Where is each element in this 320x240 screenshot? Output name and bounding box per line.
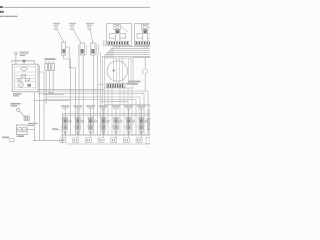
fuse wires: [46, 71, 53, 101]
detail box A drops: [115, 45, 117, 48]
pump inner wires: [114, 58, 132, 84]
callout 2 label: [69, 23, 76, 26]
gauge circle 1: [18, 127, 23, 132]
pump circle: [107, 61, 127, 81]
callout 1 leader: [57, 29, 64, 42]
callout 2 circle: [70, 27, 73, 30]
detail box B: [134, 24, 157, 46]
detail box B lamp: [141, 24, 148, 29]
valve under boxes: [60, 138, 150, 144]
valve bottom stubs: [65, 135, 150, 144]
pump side stub: [98, 84, 105, 86]
title text: [0, 11, 2, 13]
under box ticks: [61, 139, 141, 141]
valve unit 1: [62, 109, 71, 135]
relay contact K2: [18, 78, 21, 81]
right valve circle: [142, 69, 147, 74]
fuse F2: [48, 63, 50, 70]
left rail label: [52, 128, 58, 129]
detail box A cross: [109, 34, 125, 39]
gauge wire: [27, 129, 34, 131]
solenoid S3 wires: [93, 55, 95, 135]
solenoid S2 wires: [78, 55, 80, 135]
detail box B terminal strip: [135, 41, 150, 45]
solenoid S3: [91, 43, 95, 55]
detail box A terminal strip: [108, 41, 129, 45]
detail box B drops: [143, 45, 145, 48]
callout 2 leader: [73, 29, 81, 42]
valve labels: [61, 105, 150, 107]
left sensor label: [11, 103, 21, 107]
valve unit 7: [138, 109, 147, 135]
gauge caption: [17, 135, 24, 137]
left sensor leader: [19, 111, 24, 116]
callout 3 leader: [90, 30, 93, 43]
gauge box: [17, 125, 28, 135]
left sensor circle: [17, 108, 20, 111]
relay internal rails: [15, 72, 36, 87]
relay label stem: [15, 55, 17, 65]
valve unit 8 partial: [148, 109, 151, 135]
detail box B lamp wire: [148, 27, 150, 28]
callout 3 circle: [88, 27, 91, 30]
detail box A: [106, 24, 131, 46]
relay contact K1: [21, 74, 25, 77]
subtitle text: [0, 16, 17, 17]
valve spool marks: [64, 119, 143, 129]
right caption: [128, 81, 141, 83]
gauge pointers: [19, 129, 20, 130]
relay label circle: [15, 52, 18, 55]
gauge circle 2: [22, 127, 27, 132]
valve arrow marks: [61, 121, 146, 134]
relay contact K3: [25, 78, 29, 81]
relay side stubs: [38, 65, 39, 67]
relay block outline: [12, 64, 38, 92]
callout 3 label: [86, 23, 94, 26]
relay caption: [13, 93, 22, 96]
right branch wire: [133, 57, 150, 59]
pump drop wires: [101, 64, 132, 135]
solenoid S2: [80, 43, 84, 55]
pump hub: [113, 70, 115, 72]
fuse group label: [45, 58, 56, 60]
bus T bar: [12, 60, 35, 62]
valve unit 6: [125, 109, 134, 135]
valve unit 2: [75, 109, 84, 135]
valve top bus: [62, 113, 150, 115]
bottom left box: [10, 139, 15, 142]
relay label text: [20, 52, 29, 57]
gauge label: [28, 123, 37, 126]
detail box B solenoid blob: [144, 30, 147, 33]
stair bus wires: [101, 46, 150, 64]
fuse junction: [49, 92, 52, 94]
detail box B cross: [137, 34, 153, 39]
detail box A lamp: [114, 24, 121, 29]
valve unit 5: [113, 109, 122, 135]
box A left stubs: [102, 40, 104, 46]
header rule: [3, 6, 150, 9]
hatch box: [24, 116, 29, 120]
valve left rail: [61, 114, 63, 143]
detail box A lamp wire: [120, 27, 128, 33]
solenoid S1: [62, 42, 66, 55]
callout 1 circle: [54, 27, 57, 30]
relay block inner frame: [15, 66, 36, 89]
left drop wires: [33, 66, 61, 141]
main bus wires: [35, 72, 151, 141]
bottom left text: [2, 137, 9, 139]
relay coil ellipse: [21, 67, 28, 70]
valve unit 3: [87, 109, 96, 135]
relay motor circle: [19, 83, 24, 88]
header rule tab: [0, 6, 3, 8]
valve bottom bus: [61, 134, 150, 136]
solenoid S1 wire: [66, 47, 76, 135]
pump terminal strip: [107, 83, 126, 87]
callout 1 label: [53, 23, 60, 26]
valve unit 4: [100, 109, 109, 135]
detail box A solenoid blob: [116, 30, 119, 33]
fuse F3: [52, 63, 54, 70]
pump enclosure: [105, 58, 134, 88]
fuse F1: [45, 63, 47, 70]
bus T node: [23, 60, 26, 62]
pump caption: [126, 83, 138, 85]
relay dark contact: [27, 84, 31, 87]
